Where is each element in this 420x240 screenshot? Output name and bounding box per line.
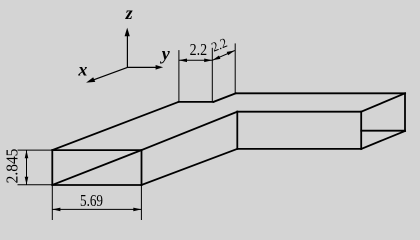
right arm top-front edge [237,111,361,113]
dimension label 2.2 (second, rotated) [209,35,229,55]
y-axis [127,65,163,70]
right opening front vertical edge [360,112,362,149]
front opening bottom edge [52,184,141,186]
extension line right of second 2.2 [234,43,236,93]
z-axis [125,28,130,68]
extension line left of 5.69 [51,185,53,220]
dimension label 2.845 (rotated) [3,149,22,184]
right arm bottom-front edge [237,148,361,150]
right opening back vertical edge [404,93,406,131]
svg-text:5.69: 5.69 [80,191,103,210]
dimension line 2.2 (second, slanted) [212,51,235,61]
interior bottom-back edge seen through right opening [361,130,405,132]
dimension line 2.2 (first) [179,59,212,63]
front opening left edge [51,150,53,185]
front opening right edge [141,150,143,185]
dimension line 5.69 [52,208,141,212]
interior bottom-back edge seen through front opening [52,150,141,185]
left arm top-back edge [52,102,178,150]
bend back slant edge [213,93,235,102]
extension line right of 5.69 [140,185,142,220]
front opening top edge [52,149,141,151]
left arm top-front edge [142,112,238,150]
dimension extension lines [18,43,236,220]
bend back horizontal edge [179,101,214,103]
extension line bottom of 2.845 [18,184,53,186]
right arm top-back edge [236,92,405,94]
right opening bottom edge [361,131,405,149]
svg-text:2.845: 2.845 [3,149,22,184]
left arm bottom-front edge [142,149,238,185]
extension line between 2.2 dimensions [211,48,213,102]
x-axis [86,67,127,82]
bend front vertical edge [236,112,238,149]
svg-text:2.2: 2.2 [190,40,208,59]
waveguide body outline [52,93,405,185]
svg-text:z: z [125,3,133,23]
dimension line 2.845 (vertical) [25,150,29,185]
svg-text:y: y [160,43,171,63]
extension line left of first 2.2 [178,50,180,102]
svg-text:x: x [77,60,87,80]
extension line top of 2.845 [18,149,53,151]
right opening top edge [361,93,405,111]
